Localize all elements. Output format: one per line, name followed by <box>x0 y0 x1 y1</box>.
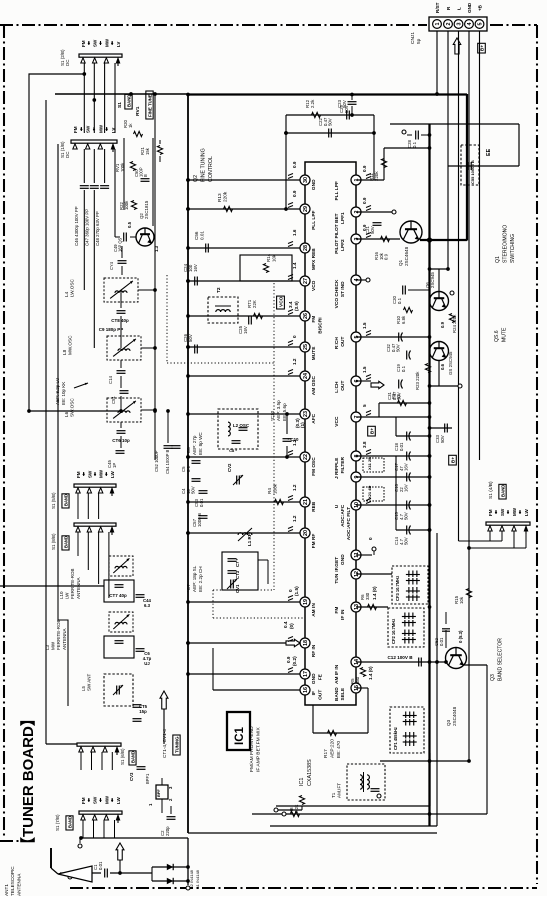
svg-text:*C10: *C10 <box>270 410 275 421</box>
svg-text:J RIPPLE: J RIPPLE <box>334 457 340 479</box>
svg-text:0.01: 0.01 <box>200 231 205 240</box>
svg-text:S1 (6/B): S1 (6/B) <box>120 748 125 765</box>
svg-text:R13: R13 <box>217 193 222 202</box>
svg-text:GND: GND <box>311 673 317 684</box>
svg-text:EE: 470: EE: 470 <box>336 741 342 758</box>
svg-text:0: 0 <box>292 335 297 338</box>
svg-text:100k: 100k <box>273 483 278 494</box>
svg-text:1000 B: 1000 B <box>197 513 202 527</box>
svg-text:BPF: BPF <box>156 789 161 797</box>
svg-text:15p: 15p <box>139 709 147 714</box>
svg-text:B+: B+ <box>480 45 485 51</box>
svg-text:CV2: CV2 <box>227 463 232 472</box>
svg-text:L1 RF: L1 RF <box>247 533 252 546</box>
svg-text:IF: IF <box>311 691 317 695</box>
svg-text:LW: LW <box>65 592 70 599</box>
svg-text:15k: 15k <box>145 147 150 155</box>
svg-text:MW.OSC: MW.OSC <box>68 335 73 355</box>
svg-text:ANTENNA: ANTENNA <box>62 628 67 650</box>
svg-text:CY4: CY4 <box>109 261 114 270</box>
svg-text:50V: 50V <box>396 344 401 352</box>
svg-text:FM: FM <box>334 607 340 614</box>
svg-text:QS.6: QS.6 <box>494 330 500 342</box>
svg-text:MUTE: MUTE <box>502 327 508 342</box>
svg-text:BAND: BAND <box>67 816 72 828</box>
svg-text:C7 *: C7 * <box>235 558 240 567</box>
svg-text:0.01: 0.01 <box>399 442 404 451</box>
svg-text:ST IND: ST IND <box>340 281 346 297</box>
svg-text:LW: LW <box>116 796 121 804</box>
svg-text:R23 220k: R23 220k <box>415 371 420 390</box>
svg-text:L10: L10 <box>59 591 64 599</box>
svg-text:PILOT: PILOT <box>334 240 340 254</box>
svg-text:50V: 50V <box>404 512 409 520</box>
svg-text:R24 220k: R24 220k <box>452 314 457 333</box>
svg-text:Q3: Q3 <box>490 674 496 681</box>
svg-text:LW: LW <box>110 470 115 478</box>
svg-text:R:CH: R:CH <box>334 337 340 350</box>
svg-text:L:CH: L:CH <box>334 381 340 393</box>
svg-text:16V: 16V <box>243 326 248 334</box>
svg-text:1.5: 1.5 <box>362 322 367 329</box>
svg-text:2SC1815: 2SC1815 <box>144 200 149 219</box>
svg-text:GND: GND <box>340 554 346 565</box>
svg-text:0 (5.3): 0 (5.3) <box>458 630 463 643</box>
svg-text:5p: 5p <box>416 38 422 44</box>
svg-text:0.01: 0.01 <box>199 498 204 507</box>
svg-text:CT7 40p: CT7 40p <box>109 593 127 598</box>
svg-text:AEP: 27p: AEP: 27p <box>192 435 197 455</box>
svg-text:SW: SW <box>93 796 98 804</box>
svg-text:FM: FM <box>488 509 493 516</box>
svg-text:PLL LPF: PLL LPF <box>334 181 340 200</box>
svg-text:0: 0 <box>368 537 373 540</box>
svg-text:16V: 16V <box>404 463 409 471</box>
svg-text:680: 680 <box>355 676 360 684</box>
svg-text:T2: T2 <box>216 287 222 293</box>
svg-text:CT8 40p: CT8 40p <box>111 318 129 323</box>
svg-text:ANTENNA: ANTENNA <box>16 873 21 896</box>
svg-text:L5: L5 <box>81 685 86 691</box>
svg-text:(0): (0) <box>289 623 294 629</box>
svg-text:C48 270p 63V PP: C48 270p 63V PP <box>95 211 100 246</box>
svg-text:FERRITE-ROB: FERRITE-ROB <box>56 619 61 650</box>
svg-text:C51: C51 <box>111 396 116 404</box>
svg-text:SW.OSC: SW.OSC <box>70 398 75 417</box>
svg-text:UJ: UJ <box>144 661 150 666</box>
svg-text:EE: EE <box>486 148 492 156</box>
svg-text:X21 4D: X21 4D <box>367 486 372 499</box>
svg-text:50V: 50V <box>440 435 445 443</box>
svg-text:0.1: 0.1 <box>401 365 406 372</box>
svg-text:CF2 10.7MHz: CF2 10.7MHz <box>391 619 396 644</box>
svg-text:AM.IFT: AM.IFT <box>337 783 342 798</box>
svg-text:AOC:AFC: AOC:AFC <box>340 504 346 527</box>
svg-text:BPF1: BPF1 <box>145 773 150 784</box>
svg-text:BAND: BAND <box>501 485 506 497</box>
svg-text:0.1: 0.1 <box>412 141 417 148</box>
svg-text:C14: C14 <box>108 376 113 384</box>
svg-text:AM OSC: AM OSC <box>311 375 317 395</box>
svg-text:C47 360p 100V PP: C47 360p 100V PP <box>84 209 89 246</box>
svg-text:FINE TUNING: FINE TUNING <box>201 148 207 182</box>
svg-text:25: 25 <box>303 344 309 350</box>
svg-text:3.8: 3.8 <box>362 441 367 448</box>
svg-text:CV1: CV1 <box>235 584 240 593</box>
svg-text:X11 2B: X11 2B <box>367 457 372 470</box>
svg-text:0.01: 0.01 <box>439 637 444 646</box>
svg-text:Q3: Q3 <box>446 719 451 726</box>
svg-text:CT3: CT3 <box>235 570 240 579</box>
svg-text:C56: C56 <box>194 231 199 240</box>
svg-text:VCO: VCO <box>279 296 285 307</box>
svg-text:EE: 10p KK: EE: 10p KK <box>61 382 66 405</box>
svg-text:LPF1: LPF1 <box>340 212 346 224</box>
svg-text:L2 OSC: L2 OSC <box>233 423 250 428</box>
svg-text:B2 IN4148: B2 IN4148 <box>189 869 194 889</box>
svg-text:TELESCOPIC: TELESCOPIC <box>10 866 15 896</box>
svg-text:50V: 50V <box>188 334 193 342</box>
svg-text:AOC:AFC FILT: AOC:AFC FILT <box>346 507 352 540</box>
svg-text:SW: SW <box>87 470 92 478</box>
svg-text:GND: GND <box>311 179 317 190</box>
svg-text:FINE TUNE: FINE TUNE <box>148 94 153 117</box>
svg-text:B: B <box>143 174 148 177</box>
svg-text:EE: 8p WC: EE: 8p WC <box>198 432 203 455</box>
svg-text:S1: S1 <box>117 102 123 108</box>
svg-text:SELE: SELE <box>340 687 346 700</box>
svg-text:Q2: Q2 <box>193 175 199 182</box>
svg-text:IC1: IC1 <box>234 727 246 746</box>
svg-text:5: 5 <box>478 23 484 26</box>
svg-text:FM: FM <box>311 316 317 323</box>
svg-text:AM IF IN: AM IF IN <box>334 664 340 684</box>
svg-text:AM IN: AM IN <box>311 603 317 617</box>
svg-text:6.8k: 6.8k <box>401 315 406 324</box>
svg-text:10k: 10k <box>459 596 464 604</box>
svg-text:0.9: 0.9 <box>292 190 297 197</box>
svg-text:MUTE: MUTE <box>311 346 317 360</box>
svg-text:1.4 (0): 1.4 (0) <box>372 586 377 600</box>
svg-text:0.6: 0.6 <box>440 363 445 370</box>
svg-text:19: 19 <box>303 599 309 605</box>
svg-text:AEP: 18p SL: AEP: 18p SL <box>192 565 197 592</box>
svg-text:2SC945: 2SC945 <box>430 272 435 288</box>
svg-text:C46 4300p 100V PP: C46 4300p 100V PP <box>74 206 79 246</box>
svg-text:22: 22 <box>303 454 309 460</box>
svg-text:SWITCHING: SWITCHING <box>510 234 516 263</box>
svg-text:5: 5 <box>362 404 367 407</box>
svg-text:MW: MW <box>99 469 104 478</box>
svg-text:FM: FM <box>81 40 86 47</box>
svg-text:R4: R4 <box>267 488 272 494</box>
svg-text:AEP:220: AEP:220 <box>329 739 335 758</box>
svg-text:C9 180p PP: C9 180p PP <box>99 327 124 332</box>
svg-text:BAND: BAND <box>130 751 135 763</box>
svg-text:CONTROL: CONTROL <box>208 156 214 182</box>
svg-text:FM: FM <box>76 471 81 478</box>
svg-text:L8: L8 <box>62 349 67 355</box>
svg-text:LPF2: LPF2 <box>340 239 346 251</box>
svg-text:0.9: 0.9 <box>362 165 367 172</box>
svg-text:2SC4048: 2SC4048 <box>452 706 457 726</box>
svg-text:Q1: Q1 <box>495 256 501 263</box>
svg-text:29: 29 <box>303 206 309 212</box>
svg-text:0.1: 0.1 <box>397 297 402 304</box>
svg-text:1.2: 1.2 <box>292 484 297 491</box>
svg-text:BAND: BAND <box>334 687 340 701</box>
svg-text:FE: FE <box>318 673 324 680</box>
svg-text:100k: 100k <box>120 162 125 172</box>
svg-text:IC1: IC1 <box>299 778 305 786</box>
svg-text:220k: 220k <box>223 191 228 202</box>
svg-text:0.9: 0.9 <box>362 197 367 204</box>
svg-text:50V: 50V <box>328 118 333 126</box>
svg-text:220p: 220p <box>165 826 170 836</box>
svg-text:0.5: 0.5 <box>127 221 132 228</box>
svg-text:GS 2SC945: GS 2SC945 <box>448 351 453 375</box>
svg-text:BISCRI: BISCRI <box>318 317 324 334</box>
svg-text:50V: 50V <box>344 105 349 113</box>
svg-text:S1 (8/B): S1 (8/B) <box>51 533 56 550</box>
svg-text:4: 4 <box>467 23 473 26</box>
svg-text:22K: 22K <box>252 300 257 308</box>
svg-text:U: U <box>334 504 340 508</box>
svg-text:FM OSC: FM OSC <box>311 457 317 476</box>
svg-text:1.2: 1.2 <box>292 515 297 522</box>
svg-text:R17: R17 <box>323 749 329 758</box>
svg-text:24: 24 <box>303 373 309 379</box>
svg-text:SW ANT: SW ANT <box>86 673 91 691</box>
svg-text:S1 (7/B): S1 (7/B) <box>55 814 60 831</box>
svg-text:GND: GND <box>467 2 472 13</box>
svg-text:0.4: 0.4 <box>283 621 288 628</box>
svg-text:C52 1000P: C52 1000P <box>154 450 159 472</box>
svg-text:L6: L6 <box>64 411 69 417</box>
svg-text:RF IN: RF IN <box>311 644 317 657</box>
svg-text:MW: MW <box>51 641 56 650</box>
svg-text:VCO: VCO <box>311 280 317 291</box>
svg-text:BAND: BAND <box>63 536 68 548</box>
svg-text:EE: 2.2p CH: EE: 2.2p CH <box>198 566 203 592</box>
svg-text:ANTENNA: ANTENNA <box>76 577 81 599</box>
svg-text:C12 100V B: C12 100V B <box>387 655 413 660</box>
svg-text:220k: 220k <box>374 171 379 181</box>
svg-text:FERRITE-ROB: FERRITE-ROB <box>70 568 75 599</box>
svg-text:2.2k: 2.2k <box>310 99 315 108</box>
svg-text:20: 20 <box>303 530 309 536</box>
svg-text:IF IN: IF IN <box>340 609 346 620</box>
svg-text:1.6: 1.6 <box>292 229 297 236</box>
svg-text:T1: T1 <box>331 792 336 798</box>
svg-text:B+: B+ <box>451 457 456 463</box>
svg-text:MPX REB: MPX REB <box>311 248 317 270</box>
svg-text:LW.OSC: LW.OSC <box>70 279 75 297</box>
svg-text:2SC4648: 2SC4648 <box>404 246 409 266</box>
svg-text:1.5: 1.5 <box>362 366 367 373</box>
svg-text:62: 62 <box>396 394 401 399</box>
svg-text:MW: MW <box>104 795 109 804</box>
svg-text:(3.9): (3.9) <box>294 301 299 311</box>
svg-text:VCO CHECK: VCO CHECK <box>334 279 340 308</box>
svg-text:21: 21 <box>303 499 309 505</box>
svg-text:PILOT BET: PILOT BET <box>334 213 340 238</box>
svg-text:16V: 16V <box>404 484 409 492</box>
svg-text:1.4 (0): 1.4 (0) <box>368 666 373 680</box>
svg-text:SW: SW <box>86 125 91 133</box>
svg-text:B1 IN4148: B1 IN4148 <box>195 869 200 889</box>
svg-text:(1.5): (1.5) <box>294 586 299 596</box>
svg-text:PLL LPF: PLL LPF <box>311 210 317 229</box>
svg-text:330: 330 <box>365 592 370 600</box>
svg-text:26: 26 <box>303 313 309 319</box>
svg-text:CNJ1: CNJ1 <box>410 32 416 44</box>
svg-text:2: 2 <box>446 23 452 26</box>
svg-text:SW: SW <box>500 508 505 516</box>
svg-text:L: L <box>456 7 461 10</box>
svg-text:0.01: 0.01 <box>98 861 103 870</box>
svg-text:30: 30 <box>303 177 309 183</box>
svg-text:CF3 10.7MHz: CF3 10.7MHz <box>395 576 400 601</box>
svg-text:CXA1538S: CXA1538S <box>307 759 313 786</box>
svg-text:MW: MW <box>104 38 109 47</box>
svg-text:16: 16 <box>303 687 309 693</box>
svg-text:0.9: 0.9 <box>440 321 445 328</box>
svg-text:3: 3 <box>457 23 463 26</box>
svg-text:18: 18 <box>303 640 309 646</box>
svg-text:AFC: AFC <box>311 413 317 423</box>
svg-text:(0.2): (0.2) <box>292 656 297 666</box>
svg-text:17: 17 <box>303 671 309 677</box>
svg-text:EE: 5.6p: EE: 5.6p <box>282 403 287 421</box>
svg-text:R14: R14 <box>266 253 271 262</box>
svg-text:0.9: 0.9 <box>286 656 291 663</box>
svg-text:SW: SW <box>93 39 98 47</box>
svg-text:S1 (4/B): S1 (4/B) <box>488 481 494 499</box>
svg-text:6.3: 6.3 <box>144 603 151 608</box>
svg-text:28: 28 <box>303 245 309 251</box>
svg-text:FM/AM FRONT-END: FM/AM FRONT-END <box>249 726 255 772</box>
svg-text:0: 0 <box>288 589 293 592</box>
svg-text:1P: 1P <box>112 463 117 468</box>
svg-text:C54 1000P B: C54 1000P B <box>165 449 170 474</box>
svg-text:16V: 16V <box>193 264 198 272</box>
svg-text:0.1: 0.1 <box>186 465 191 472</box>
svg-text:L4: L4 <box>64 291 69 297</box>
svg-text:+B: +B <box>477 4 482 11</box>
svg-text:DC: DC <box>65 59 70 66</box>
svg-text:BAND: BAND <box>63 494 68 506</box>
svg-text:CF1 455kHz: CF1 455kHz <box>393 727 398 750</box>
svg-text:MW: MW <box>98 124 103 133</box>
svg-text:1.4: 1.4 <box>292 262 297 269</box>
svg-text:IF AMP BET.FM MIX: IF AMP BET.FM MIX <box>256 727 262 772</box>
svg-text:AEP: 3.5p: AEP: 3.5p <box>276 400 281 421</box>
svg-text:MW: MW <box>512 507 517 516</box>
svg-text:0.9: 0.9 <box>384 253 389 260</box>
svg-text:CT1-4, CV1-4: CT1-4, CV1-4 <box>162 729 167 758</box>
svg-text:50V: 50V <box>191 486 196 494</box>
svg-text:LV: LV <box>116 42 121 47</box>
svg-text:ANT1: ANT1 <box>4 884 9 896</box>
svg-text:VCC: VCC <box>334 416 340 427</box>
svg-text:IF.GET: IF.GET <box>334 557 340 572</box>
svg-text:DC: DC <box>65 151 70 158</box>
svg-text:50V: 50V <box>404 537 409 545</box>
svg-text:C8 *: C8 * <box>229 448 237 453</box>
svg-text:L3: L3 <box>45 644 50 650</box>
svg-text:0.9: 0.9 <box>292 161 297 168</box>
svg-text:B+: B+ <box>370 428 375 434</box>
svg-text:1: 1 <box>435 23 441 26</box>
svg-text:3.4: 3.4 <box>288 301 293 308</box>
svg-text:REB: REB <box>311 501 317 512</box>
svg-text:FILTER: FILTER <box>340 457 346 474</box>
svg-text:TUNING: TUNING <box>175 736 180 753</box>
svg-text:OUT: OUT <box>318 690 324 700</box>
svg-text:LW: LW <box>524 508 529 516</box>
svg-text:10k: 10k <box>272 254 277 262</box>
svg-text:FM RF: FM RF <box>311 534 317 549</box>
svg-text:RV1: RV1 <box>135 106 141 116</box>
svg-text:C55 1000p B: C55 1000p B <box>470 160 475 184</box>
svg-text:(1): (1) <box>300 422 305 428</box>
svg-text:OUT: OUT <box>340 337 346 347</box>
svg-text:FM: FM <box>73 126 78 133</box>
svg-text:S1 (5/B): S1 (5/B) <box>51 492 56 509</box>
svg-text:STEREO/MONO: STEREO/MONO <box>503 225 509 263</box>
svg-text:AEP: 8.2p UJ: AEP: 8.2p UJ <box>55 378 60 405</box>
svg-text:R/ST: R/ST <box>435 2 440 13</box>
svg-text:【TUNER BOARD】: 【TUNER BOARD】 <box>19 711 37 852</box>
svg-text:OUT: OUT <box>340 381 346 391</box>
svg-text:23: 23 <box>303 411 309 417</box>
svg-text:FM: FM <box>81 797 86 804</box>
svg-text:CV3: CV3 <box>129 772 134 781</box>
svg-text:100k: 100k <box>124 200 129 210</box>
svg-text:BAND SELECTOR: BAND SELECTOR <box>498 638 504 681</box>
svg-text:TUN: TUN <box>334 573 340 583</box>
svg-text:*C7: *C7 <box>186 584 191 592</box>
svg-text:27: 27 <box>303 278 309 284</box>
svg-text:1.2: 1.2 <box>292 358 297 365</box>
svg-text:Q1: Q1 <box>398 259 403 266</box>
svg-text:*C8: *C8 <box>186 447 191 455</box>
svg-text:BAND: BAND <box>127 95 132 107</box>
